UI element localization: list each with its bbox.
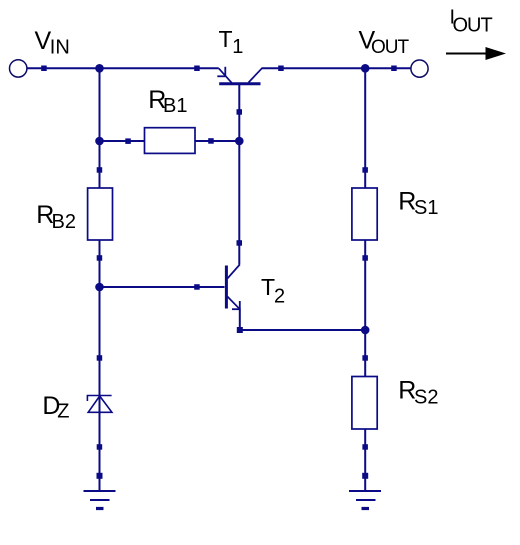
label VOUT [359,27,410,59]
wire: T1 collector to VOUT terminal [262,67,412,69]
ground (right) [349,491,381,509]
label IOUT [450,7,493,37]
label RS2 [398,377,438,409]
wire: right rail upper (node B down to RS1) [364,68,366,188]
transistor T1 (PNP pass transistor) [217,67,262,84]
junction markers on RB1 leads [125,138,213,144]
resistor RS1 [352,188,377,240]
resistor RS2 [352,377,377,430]
label RB2 [36,201,76,233]
node: RB1 right / T1 base junction [235,137,244,146]
node D (RS1 / RS2 / T2 emitter junction) [361,326,370,335]
junction marker on T2 base wire [194,284,200,290]
ground (left) [84,491,116,509]
junction markers on top wire [41,66,397,72]
wire: VIN terminal to node A [27,67,219,69]
svg-text:B1: B1 [163,95,187,117]
output terminal VOUT [411,60,428,77]
wire: T1 base down to T2 collector [238,85,240,265]
svg-text:OUT: OUT [371,37,410,58]
zener diode DZ [87,396,112,413]
svg-text:OUT: OUT [453,15,493,37]
label VIN [35,27,70,59]
label RB1 [148,86,187,117]
wire: RB1 left lead [100,140,145,142]
resistor RB2 [88,188,113,240]
label T2 [261,274,285,308]
wire: T2 emitter to node D [240,329,365,331]
svg-text:Z: Z [57,401,69,423]
transistor T2 (NPN) [226,265,239,310]
wire: RS1 bottom to node D [364,240,366,377]
label T1 [219,26,244,58]
svg-text:B2: B2 [52,211,76,233]
input terminal VIN [10,60,27,77]
node C (RB2 / DZ / T2 base junction) [95,283,104,292]
wire: T2 base from node C [100,286,225,288]
wire: RS2 bottom to ground [364,429,366,491]
node B (VOUT rail junction) [361,64,370,73]
svg-text:T: T [219,26,233,52]
svg-text:S1: S1 [414,197,438,219]
svg-text:T: T [261,274,275,300]
svg-text:S2: S2 [414,387,438,409]
wire: RB1 right lead [195,140,239,142]
wire: left rail lower (RB2 down through DZ to ground) [99,240,101,491]
svg-text:1: 1 [232,36,243,58]
junction markers on right rail [362,167,368,479]
label DZ [42,392,69,423]
svg-text:2: 2 [274,286,285,308]
resistor RB1 [145,128,196,154]
arrow IOUT [446,47,506,60]
junction markers on T1 base wire [237,109,243,246]
node A (VIN rail junction) [95,64,104,73]
svg-text:IN: IN [50,37,70,59]
junction marker at T2 emitter corner [237,327,243,333]
wire: T2 emitter down [239,309,241,331]
node: RB1 left junction [95,137,104,146]
wire: left rail upper (node A down to RB2) [99,68,101,188]
label RS1 [398,188,438,220]
junction markers on left rail [97,167,103,479]
